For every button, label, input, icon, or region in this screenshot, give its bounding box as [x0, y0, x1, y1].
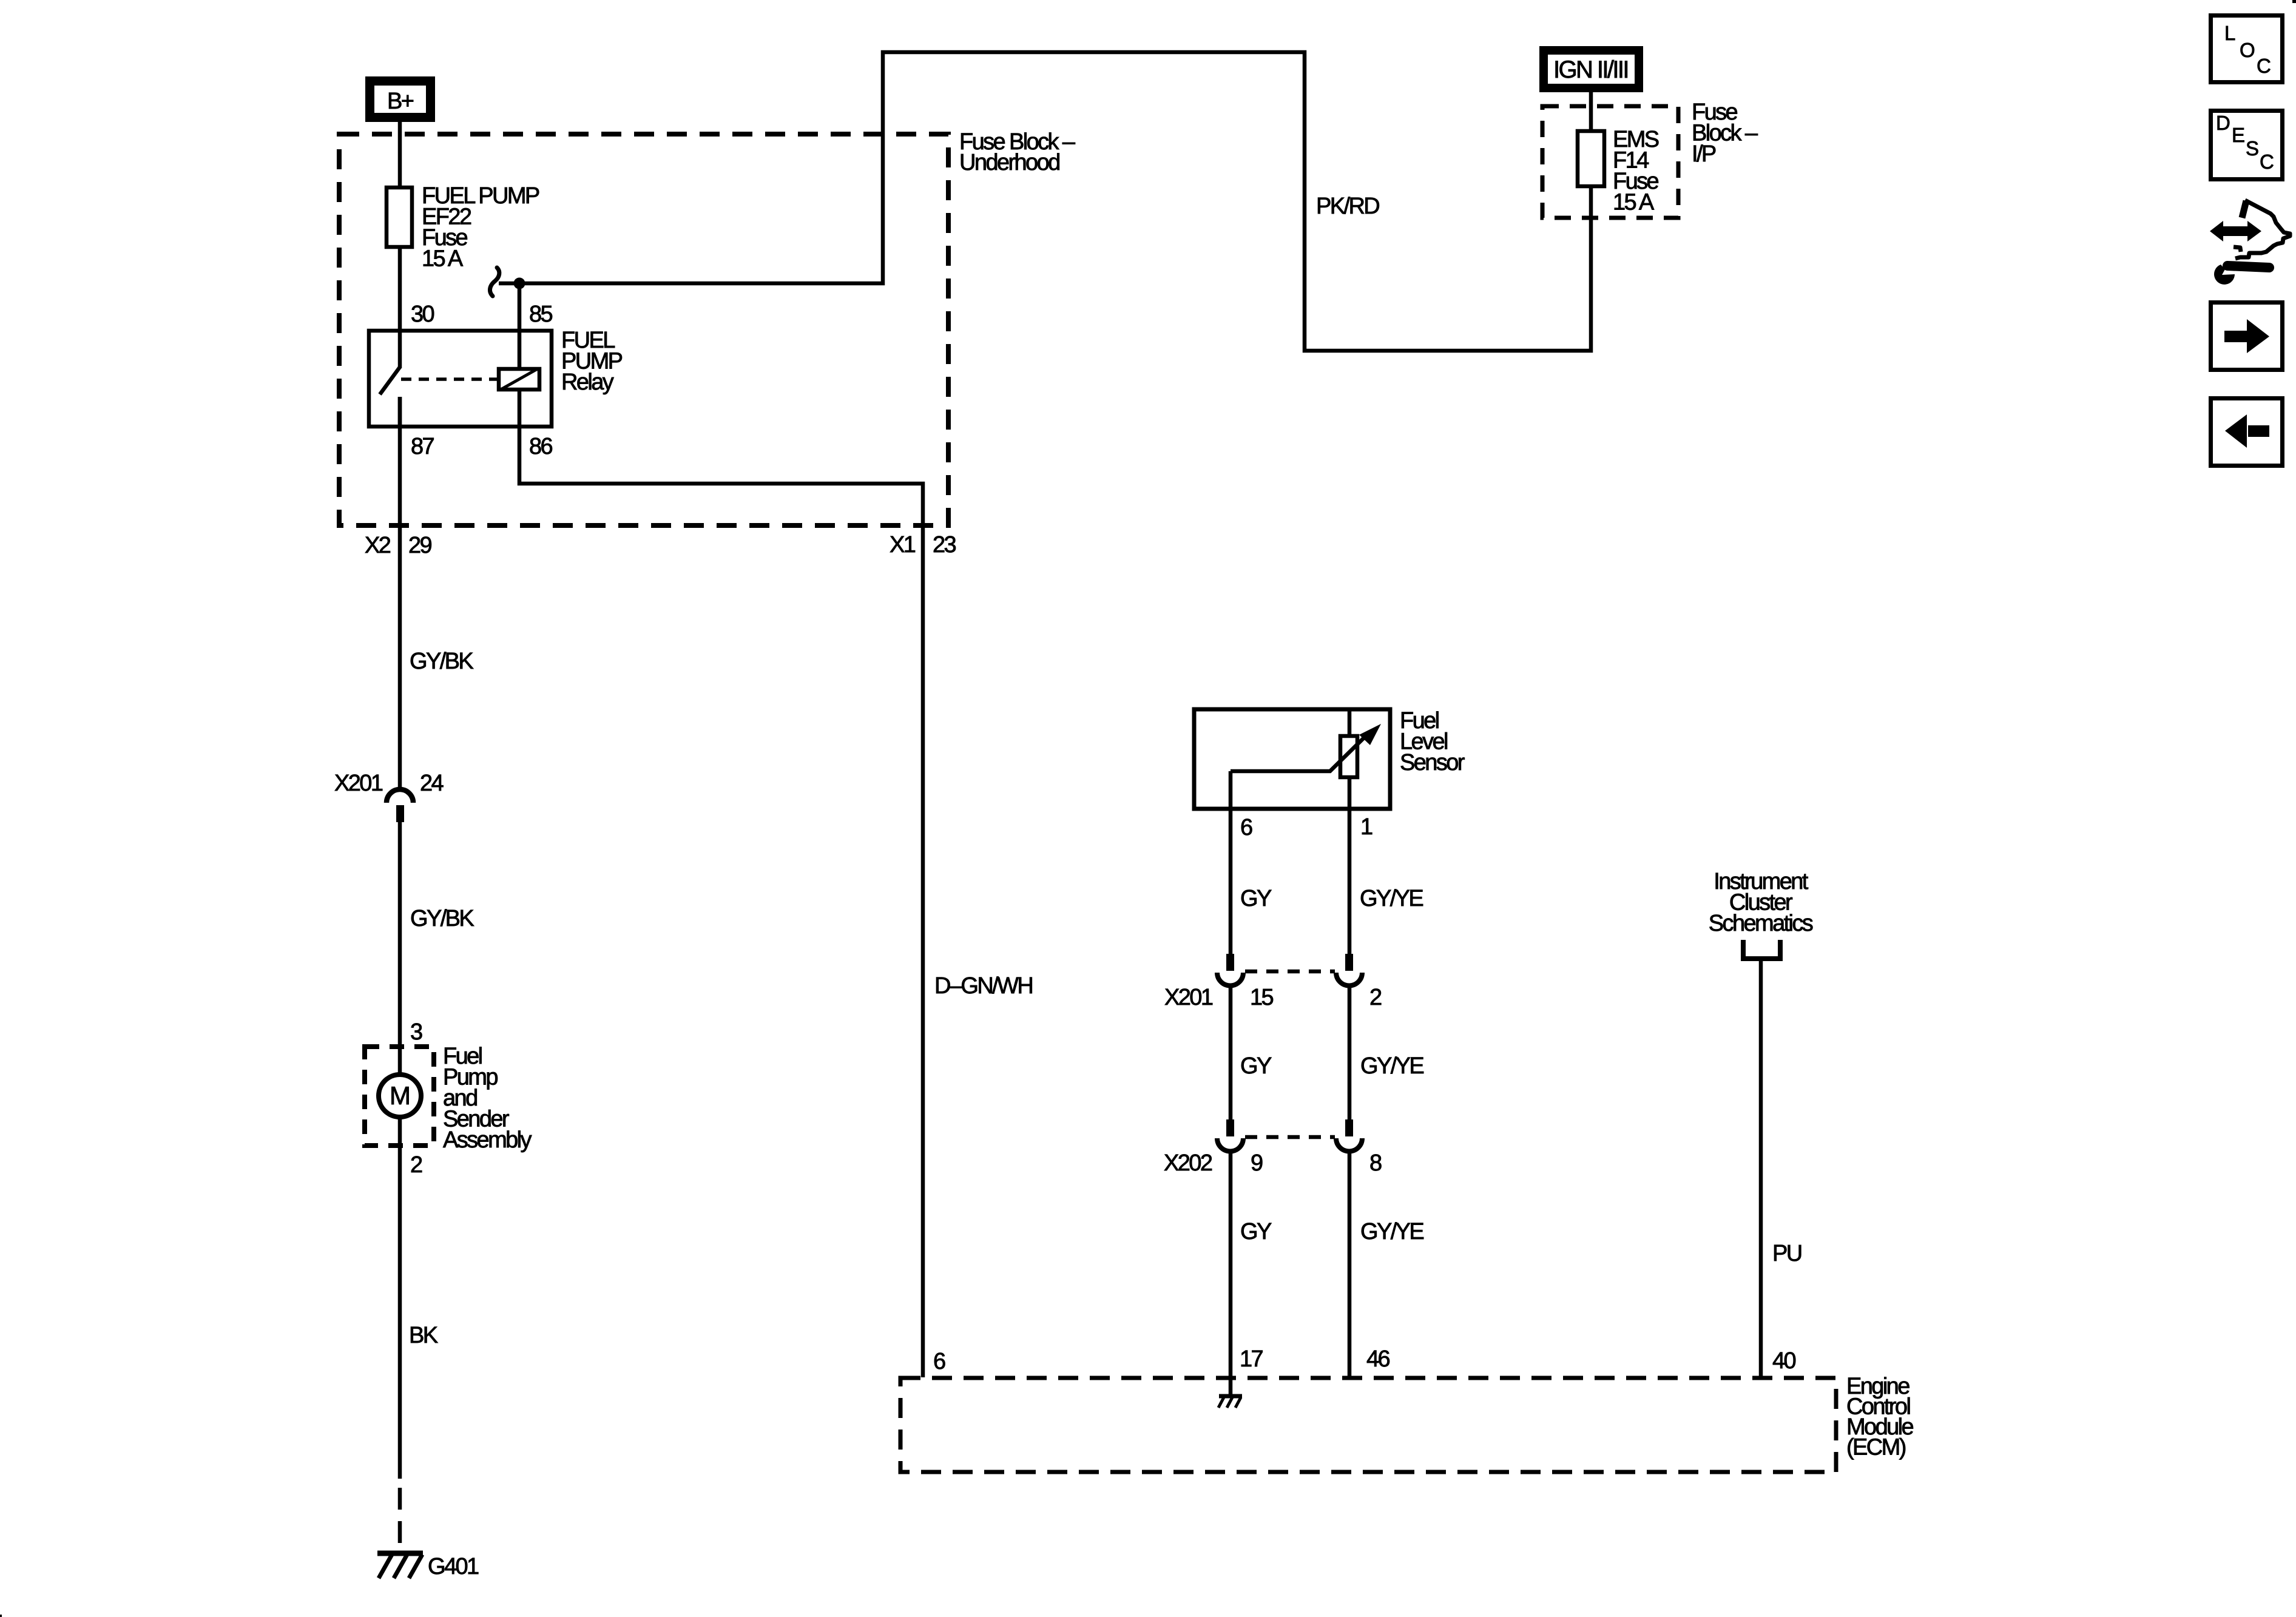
connector X202-8 female arc [1336, 1138, 1362, 1152]
svg-text:29: 29 [408, 533, 432, 558]
svg-text:40: 40 [1772, 1348, 1796, 1374]
svg-text:Underhood: Underhood [959, 150, 1059, 175]
icon next arrow button [2211, 303, 2283, 370]
wire X201-2 to X202-8 (GY/YE) [1348, 986, 1352, 1119]
svg-text:C: C [2260, 150, 2274, 173]
svg-text:S: S [2246, 137, 2258, 160]
corner mark top right [2292, 0, 2296, 3]
off-page connector bracket [1743, 940, 1780, 959]
svg-text:X202: X202 [1164, 1150, 1212, 1176]
svg-text:24: 24 [420, 771, 444, 796]
fuse EMS F14 15A [1578, 131, 1604, 186]
svg-text:85: 85 [529, 302, 553, 327]
wire B+ to fuse EF22 [398, 122, 402, 187]
node IGN II/III ignition feed [1539, 46, 1643, 92]
svg-text:D: D [2216, 112, 2230, 134]
svg-text:PU: PU [1772, 1241, 1801, 1266]
wire relay pin 86 to ECM pin 6 (D-GN/WH) [519, 390, 923, 1377]
svg-text:2: 2 [410, 1152, 422, 1178]
sensor wiper line [1231, 734, 1368, 771]
icon back arrow button [2211, 399, 2283, 466]
wire instrument cluster to ECM pin 40 (PU) [1759, 961, 1763, 1377]
wire sensor pin 1 internal down [1348, 777, 1352, 809]
svg-text:B+: B+ [387, 89, 414, 114]
svg-text:IGN II/III: IGN II/III [1553, 56, 1628, 83]
svg-text:1: 1 [1360, 814, 1373, 840]
connector X202-8 male bar [1345, 1119, 1353, 1136]
junction node dot [514, 278, 525, 289]
fuse block I/P (dashed enclosure) [1542, 106, 1678, 218]
svg-text:G401: G401 [428, 1554, 479, 1579]
label Fuse Block - Underhood [959, 129, 1076, 175]
corner mark bottom left [0, 1615, 2, 1617]
svg-text:O: O [2240, 39, 2255, 61]
wire sensor pin 1 to X201-2 (GY/YE) [1348, 809, 1352, 954]
svg-text:Sensor: Sensor [1400, 750, 1465, 775]
relay coil diagonal [502, 370, 536, 389]
wire EMS fuse top to IGN II/III [1589, 92, 1593, 132]
svg-text:Assembly: Assembly [443, 1127, 532, 1153]
label EMS F14 Fuse 15 A [1613, 127, 1659, 215]
wire fuel pump to ground (BK) [398, 1117, 402, 1479]
svg-text:6: 6 [1240, 815, 1252, 840]
svg-text:15 A: 15 A [1613, 190, 1655, 215]
connector X202-9 male bar [1226, 1119, 1234, 1136]
svg-text:X201: X201 [1164, 985, 1213, 1010]
clip/hook symbol at relay 85 feed [490, 268, 499, 296]
fuel level sensor box [1194, 709, 1390, 809]
svg-text:GY/YE: GY/YE [1360, 886, 1423, 911]
svg-text:Schematics: Schematics [1709, 911, 1813, 936]
label Fuel Level Sensor [1400, 708, 1465, 775]
wire sensor pin 6 to X201-15 (GY) [1229, 809, 1233, 954]
svg-text:86: 86 [529, 434, 553, 459]
svg-text:GY/BK: GY/BK [410, 906, 474, 931]
wire relay pin 87 stub [398, 397, 402, 427]
svg-text:23: 23 [933, 532, 956, 558]
dashed connector link X202 [1245, 1135, 1335, 1139]
connector X201-15 female arc [1217, 973, 1243, 985]
svg-text:GY: GY [1240, 1219, 1272, 1244]
label Fuel Pump and Sender Assembly [443, 1044, 532, 1153]
svg-text:(ECM): (ECM) [1846, 1435, 1906, 1460]
wire junction to relay pin 85 [518, 283, 522, 331]
wire relay pin 30 internal [398, 331, 402, 368]
svg-text:GY/YE: GY/YE [1360, 1053, 1423, 1079]
svg-text:15 A: 15 A [422, 246, 464, 272]
wire X201-15 to X202-9 (GY) [1229, 986, 1233, 1119]
icon LOC button [2211, 16, 2283, 83]
svg-text:BK: BK [409, 1323, 438, 1348]
svg-text:GY/BK: GY/BK [410, 649, 473, 674]
svg-text:GY: GY [1240, 886, 1272, 911]
label FUEL PUMP EF22 Fuse 15 A [422, 183, 539, 272]
svg-text:9: 9 [1251, 1150, 1263, 1176]
wire X202-8 to ECM pin 46 (GY/YE) [1348, 1152, 1352, 1377]
connector X201-2 female arc [1336, 973, 1362, 985]
relay FUEL PUMP relay box [369, 331, 552, 427]
wire X202-9 to ECM pin 17 (GY) [1229, 1152, 1233, 1377]
label Fuse Block - I/P [1692, 100, 1758, 167]
svg-text:Relay: Relay [561, 370, 614, 395]
svg-text:GY/YE: GY/YE [1360, 1219, 1423, 1244]
svg-text:87: 87 [411, 434, 434, 459]
wire fuse EF22 to relay pin 30 [398, 247, 402, 331]
icon DESC button [2211, 111, 2283, 180]
connector X202-9 female arc [1217, 1138, 1243, 1152]
ECM internal ground symbol [1218, 1396, 1242, 1408]
fuse EF22 FUEL PUMP 15A [387, 187, 412, 247]
svg-text:15: 15 [1250, 985, 1274, 1010]
svg-text:8: 8 [1369, 1150, 1382, 1176]
relay actuation dashed link [401, 377, 499, 381]
svg-text:6: 6 [933, 1349, 945, 1374]
wire junction up and over to EMS fuse (PK/RD run) [499, 52, 1591, 351]
svg-text:GY: GY [1240, 1053, 1272, 1079]
wire sensor pin 6 internal down [1229, 771, 1233, 809]
sensor arrow head [1359, 724, 1381, 745]
fuse block underhood (dashed enclosure) [339, 134, 948, 525]
relay coil box [499, 369, 539, 390]
wire relay pin 85 internal [518, 331, 522, 369]
sensor variable resistor element [1340, 736, 1357, 777]
ground G401 symbol [377, 1553, 423, 1578]
dashed connector link X201 [1245, 970, 1335, 974]
motor M fuel pump [379, 1075, 421, 1117]
wire ECM pin 17 internal to ground [1229, 1377, 1233, 1395]
label Engine Control Module (ECM) [1846, 1374, 1913, 1460]
svg-text:2: 2 [1369, 985, 1382, 1010]
icon hand double-arrow [2210, 221, 2261, 241]
svg-text:3: 3 [410, 1019, 422, 1045]
connector X201 pin 24 (female arc) [387, 789, 413, 803]
fuel pump and sender assembly (dashed enclosure) [365, 1047, 434, 1146]
svg-text:E: E [2232, 124, 2244, 146]
wire relay pin 87 down through X2-29 (GY/BK) [398, 397, 402, 790]
svg-text:X1: X1 [890, 532, 916, 558]
svg-text:X201: X201 [334, 771, 383, 796]
label FUEL PUMP Relay [561, 328, 623, 395]
svg-text:17: 17 [1240, 1346, 1263, 1372]
node B+ battery feed [365, 76, 435, 122]
engine control module ECM (dashed enclosure) [900, 1378, 1836, 1472]
connector X201-15 male bar [1226, 954, 1234, 971]
wire X201-24 to fuel pump motor (GY/BK) [398, 822, 402, 1075]
connector X201 pin 24 (male bar) [396, 805, 404, 822]
icon wrench [2214, 265, 2269, 285]
svg-text:C: C [2257, 55, 2271, 77]
svg-text:M: M [390, 1081, 409, 1110]
svg-text:D–GN/WH: D–GN/WH [934, 973, 1032, 999]
connector X201-2 male bar [1345, 954, 1353, 971]
sensor internal feed wire pin 1 [1348, 709, 1352, 736]
wire dashed to G401 [398, 1488, 402, 1551]
svg-text:30: 30 [411, 302, 434, 327]
svg-text:X2: X2 [365, 533, 391, 558]
svg-text:I/P: I/P [1692, 141, 1716, 167]
svg-text:46: 46 [1366, 1346, 1390, 1372]
icon hand outline [2234, 200, 2290, 258]
relay switch blade (pin 30 to 87, open) [380, 367, 400, 394]
svg-text:PK/RD: PK/RD [1316, 194, 1379, 219]
label Instrument Cluster Schematics [1709, 869, 1813, 936]
svg-text:L: L [2224, 22, 2235, 44]
